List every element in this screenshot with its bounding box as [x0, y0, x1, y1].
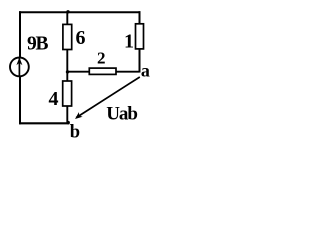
junction dot at middle (node between 6, 4 and 2) — [66, 70, 69, 73]
resistor 6 (box) — [63, 24, 72, 49]
label 2 (resistor value) — [97, 48, 106, 67]
svg-text:b: b — [70, 123, 80, 139]
svg-text:a: a — [141, 61, 150, 81]
arrow Uab from node a to node b — [75, 77, 140, 119]
resistor 2 (box) — [89, 68, 116, 74]
wire: right vertical (top corner to node a) — [139, 11, 141, 72]
junction dot at top of middle branch — [66, 10, 69, 13]
wire: left vertical — [19, 11, 21, 124]
label Uab (voltage arrow name) — [106, 103, 137, 124]
resistor 1 (box) — [136, 24, 144, 49]
junction dot node b — [67, 121, 70, 124]
wire: middle horizontal (junction to node a) — [67, 71, 139, 73]
label 9В (source value) — [27, 34, 49, 55]
svg-text:1: 1 — [124, 31, 134, 53]
node b label — [70, 123, 80, 143]
resistor 4 (box) — [63, 81, 72, 106]
svg-text:Uab: Uab — [106, 103, 137, 124]
wire: middle vertical branch — [66, 12, 68, 123]
wire: bottom horizontal (left corner to node b) — [19, 122, 69, 124]
label 1 (resistor value) — [124, 31, 134, 53]
svg-text:9В: 9В — [27, 34, 49, 55]
wire: top horizontal — [19, 11, 140, 13]
svg-text:2: 2 — [97, 48, 106, 67]
label 4 (resistor value) — [49, 88, 59, 110]
current source 9В (circle with up arrow) — [10, 57, 29, 76]
label 6 (resistor value) — [76, 27, 86, 49]
node a label — [141, 61, 150, 81]
svg-text:4: 4 — [49, 88, 59, 110]
svg-text:6: 6 — [76, 27, 86, 49]
